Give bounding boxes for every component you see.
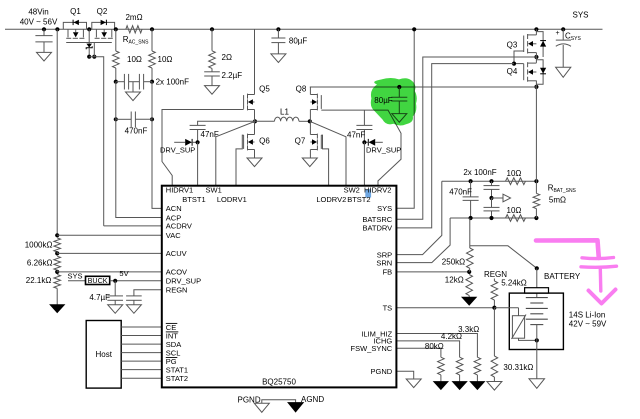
battery box	[509, 293, 563, 349]
capacitor 47nF left	[190, 121, 255, 142]
wire ACUV	[57, 252, 162, 254]
wire LODRV2	[321, 135, 328, 186]
svg-text:1000kΩ: 1000kΩ	[25, 240, 53, 249]
node Q1-Q2 mid	[87, 27, 91, 31]
svg-text:Q6: Q6	[259, 137, 270, 146]
svg-text:470nF: 470nF	[125, 126, 148, 135]
battery cells	[526, 298, 548, 325]
svg-text:Q4: Q4	[507, 67, 518, 76]
resistor 10ohm bottom	[506, 206, 526, 221]
svg-text:SYS: SYS	[377, 204, 392, 213]
ground 80uF left	[271, 54, 286, 63]
ground divider	[50, 305, 65, 313]
ground 2.2uF	[205, 86, 220, 95]
wire LODRV1	[236, 135, 244, 186]
wire input rail	[5, 28, 603, 30]
svg-text:12kΩ: 12kΩ	[445, 275, 464, 284]
resistor 3.3k	[396, 325, 480, 382]
node VAC	[55, 233, 59, 237]
node agnd arrow	[492, 194, 511, 202]
svg-text:Q5: Q5	[259, 85, 270, 94]
node 80uF left top	[276, 27, 280, 31]
node 48Vin label	[20, 8, 58, 27]
node REGN label	[484, 270, 507, 279]
diode Q4 body	[536, 60, 546, 84]
svg-text:LODRV2: LODRV2	[316, 195, 346, 204]
svg-text:SYS: SYS	[572, 11, 588, 20]
wire sense top row	[442, 180, 537, 182]
host box	[86, 321, 121, 389]
svg-text:14S Li-Ion: 14S Li-Ion	[569, 310, 605, 319]
capacitor 100nF a	[463, 168, 499, 198]
resistor 6.26k	[27, 256, 61, 270]
wire SYS riser	[396, 29, 414, 208]
node filt left top	[114, 80, 118, 84]
node SW1	[253, 110, 257, 124]
svg-text:SYS: SYS	[67, 272, 82, 281]
node Q3 Q4 mid	[534, 53, 538, 63]
svg-text:Q2: Q2	[97, 7, 108, 16]
capacitor CSYS	[555, 29, 581, 67]
svg-text:BTST1: BTST1	[182, 195, 205, 204]
wire gate to ACDRV	[89, 43, 104, 226]
svg-text:FSW_SYNC: FSW_SYNC	[351, 344, 393, 353]
resistor 10ohm left	[113, 29, 142, 81]
ground Q6	[247, 150, 262, 167]
svg-text:PGND: PGND	[371, 367, 393, 376]
node BTST1	[196, 140, 200, 144]
ground battery	[529, 379, 545, 389]
svg-text:22.1kΩ: 22.1kΩ	[26, 276, 52, 285]
wire ACOV	[57, 270, 162, 272]
svg-text:2.2µF: 2.2µF	[222, 71, 243, 80]
node ACOV	[55, 270, 59, 274]
diode DRVSUP right	[364, 139, 401, 154]
svg-text:42V ~ 59V: 42V ~ 59V	[569, 320, 607, 329]
svg-text:LODRV1: LODRV1	[217, 195, 247, 204]
ground REGN cap	[126, 305, 141, 314]
node filt right top	[150, 80, 154, 84]
svg-text:Q8: Q8	[296, 85, 307, 94]
resistor 30.31k	[491, 308, 533, 382]
capacitor 2x100nF left	[116, 74, 133, 90]
op-amp U1 BQ25750 box	[162, 186, 397, 388]
svg-text:80kΩ: 80kΩ	[425, 342, 444, 351]
svg-text:5.24kΩ: 5.24kΩ	[501, 278, 527, 287]
ground AGND tie	[288, 403, 304, 413]
resistor 10ohm right	[149, 29, 173, 81]
thermistor	[512, 308, 537, 341]
transistor Q3	[507, 29, 537, 53]
node 2ohm top	[210, 27, 214, 31]
ground filt mid	[126, 82, 141, 101]
svg-text:L1: L1	[280, 108, 289, 117]
wire BAT horizontal	[310, 86, 537, 88]
svg-text:ACN: ACN	[166, 204, 182, 213]
wire VAC column	[56, 29, 58, 235]
transistor Q4	[507, 62, 537, 81]
wire gnd tie	[262, 400, 296, 404]
transistor Q6	[244, 121, 271, 150]
transistor Q7	[295, 121, 322, 150]
svg-text:Q7: Q7	[295, 137, 306, 146]
wire BATDRV	[396, 64, 514, 228]
ground 30.31k	[487, 382, 502, 391]
node 80uF right top	[397, 85, 401, 89]
wire ACDRV into IC	[104, 225, 162, 227]
resistor 4.2k	[396, 332, 463, 381]
node sense mid	[489, 196, 493, 200]
svg-text:4.7µF: 4.7µF	[89, 293, 110, 302]
node SYS riser junction	[412, 27, 416, 31]
svg-text:FB: FB	[383, 268, 393, 277]
resistor 10ohm top	[506, 169, 526, 184]
node sense bm	[489, 216, 493, 220]
node battery minus	[535, 325, 539, 343]
svg-text:BATDRV: BATDRV	[362, 224, 392, 233]
node SYS buck label	[67, 272, 85, 281]
capacitor 2x100nF right	[133, 74, 189, 90]
ground PGND	[406, 379, 421, 388]
svg-text:HIDRV1: HIDRV1	[166, 186, 193, 195]
svg-text:STAT2: STAT2	[166, 374, 188, 383]
wire Q1 Q2 gate bar	[66, 42, 112, 44]
ground Q7	[302, 150, 317, 167]
node SYS label	[572, 11, 588, 20]
svg-text:BATTERY: BATTERY	[544, 272, 581, 281]
transistor Q1	[63, 7, 86, 39]
annotation pink capacitor	[536, 240, 617, 303]
wire BTST2 riser	[363, 142, 365, 185]
wire FB	[396, 271, 469, 273]
wire SW2 riser	[310, 121, 346, 185]
wire sense bottom row	[450, 217, 536, 219]
inductor L1	[255, 108, 310, 122]
capacitor 80uF left	[271, 29, 307, 54]
node BATTERY label	[544, 272, 581, 281]
resistor 250k	[442, 218, 473, 268]
svg-text:10Ω: 10Ω	[507, 206, 522, 215]
svg-text:2mΩ: 2mΩ	[125, 13, 142, 22]
wire BATSRC	[396, 57, 536, 219]
svg-text:80µF: 80µF	[289, 36, 308, 45]
svg-text:10Ω: 10Ω	[127, 55, 142, 64]
svg-text:BUCK: BUCK	[88, 276, 108, 285]
transistor Q2	[92, 7, 115, 39]
capacitor 2.2uF	[204, 68, 242, 85]
resistor 22.1k	[26, 275, 61, 305]
node gate drive b	[92, 55, 96, 59]
node gate drive a	[87, 55, 91, 59]
svg-text:ACUV: ACUV	[166, 249, 187, 258]
wire battery plus	[536, 268, 538, 297]
capacitor 4.7uF	[89, 281, 123, 305]
node 470nF left	[114, 117, 118, 121]
svg-text:30.31kΩ: 30.31kΩ	[503, 363, 533, 372]
svg-text:2Ω: 2Ω	[222, 53, 232, 62]
node RAC left	[114, 27, 118, 31]
svg-text:10Ω: 10Ω	[507, 169, 522, 178]
diode Q3 body	[536, 32, 546, 57]
transistor Q8	[296, 85, 322, 111]
ground 80uF right	[392, 114, 407, 123]
svg-text:ACDRV: ACDRV	[166, 222, 192, 231]
wire HIDRV2	[321, 110, 401, 186]
svg-text:BATSRC: BATSRC	[362, 215, 392, 224]
buck converter	[86, 276, 110, 285]
diode zener gate clamp	[86, 29, 92, 56]
svg-text:Q3: Q3	[507, 41, 518, 50]
capacitor 470nF sense	[449, 181, 478, 218]
svg-text:47nF: 47nF	[347, 130, 365, 139]
wire VAC	[57, 234, 162, 236]
node sense rt	[534, 179, 538, 183]
node BTST2	[362, 140, 366, 144]
node battery label2	[569, 310, 607, 328]
node RAC right	[150, 27, 154, 31]
node AGND label	[301, 395, 324, 404]
svg-text:48Vin: 48Vin	[28, 8, 48, 17]
resistor 12k	[445, 268, 473, 297]
ground 4.2k	[452, 382, 467, 390]
IC pin labels	[166, 186, 393, 383]
capacitor 470nF input	[116, 82, 152, 136]
node Q4 gate junction	[512, 62, 516, 66]
node input junction	[55, 27, 59, 31]
svg-text:VAC: VAC	[166, 231, 181, 240]
node sense cap tm	[489, 179, 493, 183]
wire DRV_SUP 5V	[110, 269, 162, 281]
ground input cap	[37, 52, 52, 61]
capacitor input bulk	[35, 27, 52, 52]
svg-text:5V: 5V	[119, 269, 128, 278]
ground PGND tie	[254, 403, 269, 412]
node battery plus	[535, 266, 539, 270]
wire SW1 riser	[216, 121, 255, 185]
resistor 1000k	[25, 238, 61, 252]
node SW2	[308, 110, 312, 124]
svg-text:BQ25750: BQ25750	[262, 378, 296, 387]
svg-text:2x 100nF: 2x 100nF	[156, 78, 189, 87]
node FB junction	[467, 270, 471, 274]
battery tab	[525, 288, 549, 293]
svg-text:+: +	[555, 30, 559, 37]
node sense bl	[469, 216, 473, 220]
node BAT junction	[534, 81, 538, 90]
svg-text:DRV_SUP: DRV_SUP	[166, 277, 201, 286]
resistor RAC_SNS 2mohm	[123, 13, 149, 46]
capacitor 47nF right	[347, 110, 372, 142]
node TS junction	[492, 306, 496, 310]
wire Q3 gate	[514, 51, 524, 64]
transistor Q5	[244, 29, 271, 110]
ground 3.3k	[470, 382, 485, 390]
diode DRVSUP left	[160, 139, 198, 154]
svg-text:ACOV: ACOV	[166, 268, 187, 277]
node ACUV	[55, 251, 59, 255]
svg-text:SRN: SRN	[376, 258, 392, 267]
wire REGN	[134, 290, 162, 296]
svg-text:5mΩ: 5mΩ	[549, 195, 566, 204]
wire battery kelvin	[470, 246, 537, 268]
svg-text:4.2kΩ: 4.2kΩ	[441, 332, 462, 341]
node 470nF right	[150, 117, 154, 121]
wire TS to thermistor	[494, 307, 518, 309]
svg-text:AGND: AGND	[301, 395, 324, 404]
resistor 80k	[396, 342, 444, 382]
wire HIDRV1	[162, 110, 244, 186]
resistor 2ohm	[209, 29, 232, 68]
node 5V	[113, 279, 117, 283]
node sense rb	[534, 216, 538, 220]
wire battery gnd	[536, 340, 538, 378]
svg-text:TS: TS	[383, 304, 393, 313]
annotation green highlight	[371, 78, 417, 125]
resistor RBAT_SNS 5mohm	[533, 87, 576, 218]
svg-text:SW2: SW2	[344, 186, 360, 195]
node CSYS top	[561, 27, 565, 31]
capacitor REGN	[126, 296, 142, 305]
svg-text:10Ω: 10Ω	[158, 55, 173, 64]
capacitor 100nF b	[484, 198, 500, 218]
wire PGND	[396, 371, 413, 379]
wire host bus	[121, 327, 162, 378]
ground 12k	[462, 297, 477, 305]
node PGND tie label	[238, 396, 261, 405]
wire SRP	[396, 181, 441, 254]
svg-text:Q1: Q1	[70, 7, 81, 16]
wire Q4 gate	[514, 63, 524, 65]
svg-text:DRV_SUP: DRV_SUP	[366, 145, 401, 154]
svg-text:2x 100nF: 2x 100nF	[463, 168, 496, 177]
svg-text:40V ~ 56V: 40V ~ 56V	[20, 18, 58, 27]
wire ACP riser	[116, 119, 162, 217]
svg-text:6.26kΩ: 6.26kΩ	[27, 259, 53, 268]
resistor 5.24k	[491, 278, 527, 307]
annotation blue highlight	[365, 189, 371, 197]
svg-text:250kΩ: 250kΩ	[442, 257, 465, 266]
capacitor 80uF right	[374, 87, 407, 114]
wire TS	[396, 307, 494, 309]
svg-text:Host: Host	[95, 350, 112, 359]
svg-text:470nF: 470nF	[449, 187, 472, 196]
ground 80k	[434, 382, 449, 390]
node sense cap tl	[469, 179, 473, 183]
wire ACN riser	[152, 119, 162, 208]
svg-text:REGN: REGN	[166, 286, 188, 295]
node Q3 drain	[534, 27, 538, 31]
svg-text:DRV_SUP: DRV_SUP	[160, 145, 195, 154]
svg-text:SW1: SW1	[206, 186, 222, 195]
ground CSYS	[556, 67, 571, 77]
ground 4.7uF	[108, 305, 123, 314]
wire BTST1 riser	[197, 142, 199, 185]
wire SRN	[396, 218, 450, 263]
